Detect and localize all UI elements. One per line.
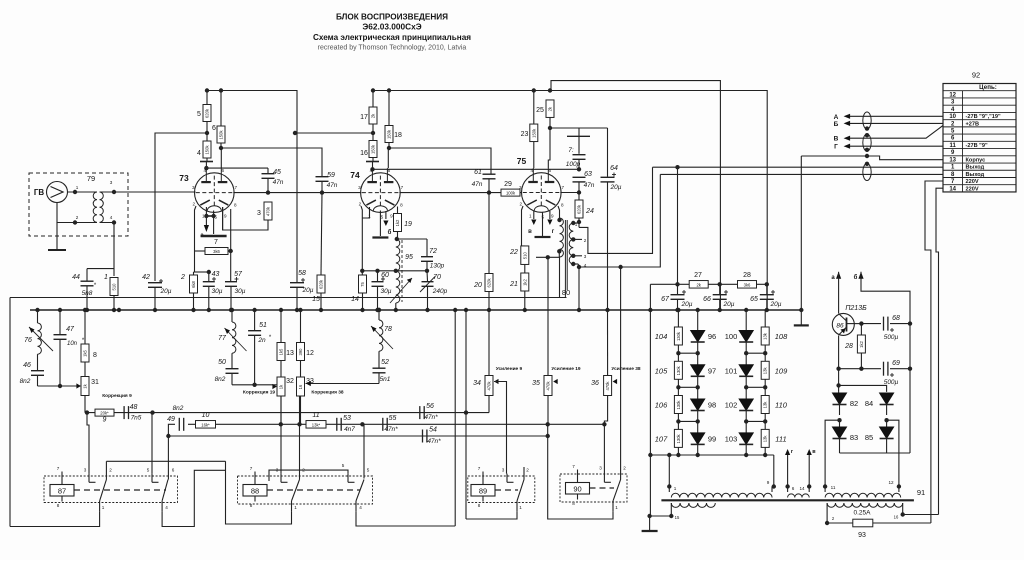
svg-text:79: 79 bbox=[87, 174, 95, 183]
wire: R25 bottom to C64 top bbox=[550, 127, 608, 129]
resistor R108 13k bbox=[764, 319, 766, 327]
svg-text:150k: 150k bbox=[531, 128, 536, 138]
wire: line G to pin11 bbox=[850, 145, 943, 147]
svg-text:16: 16 bbox=[360, 150, 368, 157]
svg-text:6: 6 bbox=[222, 168, 225, 173]
T80 right winding pins 1-4 bbox=[573, 222, 579, 224]
svg-text:Схема электрическая принципиал: Схема электрическая принципиальная bbox=[313, 33, 471, 42]
resistor R4 150k bbox=[203, 141, 211, 158]
wire: R6 bottom to V73 right anode bbox=[220, 148, 222, 168]
tube V75 internals bbox=[523, 168, 560, 211]
svg-text:1k2: 1k2 bbox=[522, 278, 527, 285]
wire: R34 wiper to relay89 pin3 bbox=[494, 382, 507, 474]
svg-text:47n*: 47n* bbox=[384, 426, 398, 433]
capacitor C69 500u bbox=[883, 362, 885, 376]
resistor R1011 13k bbox=[764, 421, 766, 429]
wire: line A to pin10 bbox=[850, 115, 943, 117]
resistor R24 620k bbox=[578, 193, 580, 201]
svg-text:47n: 47n bbox=[327, 182, 338, 189]
capacitor C52 5n1 bbox=[378, 351, 380, 368]
capacitor C58 20u bbox=[290, 282, 304, 284]
svg-text:59: 59 bbox=[327, 172, 335, 179]
svg-text:150k: 150k bbox=[205, 145, 210, 155]
wire: vertical x455 from bus to loop L4 bbox=[454, 310, 456, 526]
wire: V73 cathode pins bbox=[205, 207, 207, 216]
svg-text:Коррекция 19: Коррекция 19 bbox=[243, 390, 275, 396]
resistor R29 100k bbox=[501, 189, 520, 196]
svg-text:9: 9 bbox=[224, 214, 227, 219]
diode D102 bbox=[745, 388, 747, 400]
wire: D84/85 junction to T91 pin12 bbox=[887, 420, 899, 486]
wire: T80 pin6 tie line bbox=[536, 251, 559, 257]
svg-text:83: 83 bbox=[850, 433, 858, 442]
svg-text:10: 10 bbox=[202, 412, 210, 419]
svg-text:3: 3 bbox=[502, 468, 505, 473]
wire: loop L4 (88B pin4 to x455) bbox=[356, 512, 455, 526]
svg-text:1: 1 bbox=[519, 505, 522, 510]
wire: V73 pin5/9 to ground bbox=[213, 216, 215, 234]
svg-text:3: 3 bbox=[257, 210, 261, 217]
svg-text:85: 85 bbox=[865, 433, 873, 442]
svg-text:35: 35 bbox=[532, 380, 540, 387]
wire: grid line V74-V75 bbox=[399, 192, 521, 194]
relay K88 dashed link bbox=[267, 489, 360, 491]
capacitor C71 100p bbox=[578, 128, 580, 136]
svg-text:88: 88 bbox=[251, 487, 259, 496]
svg-text:101: 101 bbox=[725, 366, 738, 375]
resistor R9 20k bbox=[95, 409, 114, 416]
resistor R28 3k6 bbox=[738, 281, 757, 289]
wire: V74 pin1 lead bbox=[362, 207, 369, 218]
connector XS92 table bbox=[943, 84, 1016, 192]
svg-text:7: 7 bbox=[235, 185, 238, 190]
svg-text:7: 7 bbox=[401, 185, 404, 190]
relay K90 dashed link bbox=[590, 487, 615, 489]
capacitor C67 20u bbox=[677, 284, 679, 294]
resistor R13 1k5 bbox=[280, 310, 282, 343]
svg-text:8: 8 bbox=[572, 501, 575, 506]
svg-text:24: 24 bbox=[585, 208, 594, 215]
wire: node above C44/R1 bbox=[87, 268, 114, 270]
svg-text:99: 99 bbox=[708, 434, 716, 443]
svg-text:1: 1 bbox=[674, 486, 677, 491]
svg-text:47: 47 bbox=[66, 326, 75, 333]
wire: row C bbox=[168, 435, 547, 437]
svg-text:1: 1 bbox=[294, 505, 297, 510]
svg-text:16: 16 bbox=[894, 515, 899, 520]
wire: V73 pin9 lead bbox=[222, 207, 224, 230]
svg-text:13: 13 bbox=[286, 350, 294, 357]
svg-text:БЛОК ВОСПРОИЗВЕДЕНИЯ: БЛОК ВОСПРОИЗВЕДЕНИЯ bbox=[336, 13, 448, 22]
diode D103 bbox=[745, 421, 747, 433]
svg-text:Б: Б bbox=[834, 121, 839, 128]
wire: V75 pin2 lead to R22 bbox=[522, 206, 524, 246]
resistor R26 1k2 bbox=[860, 324, 862, 335]
capacitor C57 30u bbox=[225, 281, 237, 283]
svg-text:Выход: Выход bbox=[966, 172, 985, 178]
svg-text:10: 10 bbox=[949, 114, 956, 120]
svg-text:16k*: 16k* bbox=[201, 422, 210, 427]
wire: R18 bottom to C61 bbox=[389, 143, 491, 174]
wire: fuse to 220V column bbox=[873, 522, 931, 524]
resistor R105 130k bbox=[677, 353, 679, 361]
svg-text:30µ: 30µ bbox=[381, 288, 392, 295]
wire: VT86 base row bbox=[847, 323, 862, 325]
wire: row B bbox=[188, 423, 604, 425]
svg-text:500µ: 500µ bbox=[884, 334, 899, 341]
svg-text:8n2: 8n2 bbox=[173, 405, 184, 412]
diode D99 bbox=[697, 421, 699, 433]
svg-text:3: 3 bbox=[110, 180, 113, 185]
wire: grid line V73-V74 bbox=[233, 192, 361, 194]
inductor L78 with arrow bbox=[378, 310, 380, 320]
svg-text:510: 510 bbox=[522, 252, 527, 260]
resistor R32 1k (with arrow) bbox=[277, 377, 285, 396]
svg-text:470k: 470k bbox=[605, 381, 610, 391]
wire: matrix bottom rail bbox=[650, 454, 773, 456]
resistor R8 1k5 bbox=[84, 310, 86, 344]
svg-text:2: 2 bbox=[359, 202, 362, 207]
wire: output line (Vyhod 8) bbox=[660, 173, 943, 175]
svg-text:5: 5 bbox=[342, 463, 345, 468]
svg-text:16: 16 bbox=[298, 384, 303, 389]
svg-text:130p: 130p bbox=[430, 263, 445, 270]
resistor R1010 13k bbox=[764, 388, 766, 396]
transformer T79 secondary winding bbox=[100, 192, 104, 222]
svg-text:5n1: 5n1 bbox=[380, 376, 391, 383]
svg-text:130k: 130k bbox=[676, 433, 681, 443]
svg-text:47n: 47n bbox=[472, 181, 483, 188]
wire: line V to pin2 diagonal bbox=[850, 126, 943, 139]
L95 tuning arrow bbox=[390, 278, 412, 303]
capacitor C56 47n (row A) bbox=[419, 406, 421, 419]
svg-text:27: 27 bbox=[694, 272, 702, 279]
svg-text:15: 15 bbox=[312, 296, 320, 303]
svg-text:4: 4 bbox=[204, 168, 207, 173]
net arrow g (winding W2) bbox=[787, 455, 789, 487]
svg-text:14: 14 bbox=[351, 296, 359, 303]
resistor R15 620k bbox=[321, 193, 322, 275]
diode D85 bbox=[886, 420, 888, 427]
resistor R106 130k bbox=[677, 388, 679, 396]
wire: rectifier bottom rail bbox=[840, 452, 911, 454]
svg-text:Выход: Выход bbox=[966, 165, 985, 171]
svg-text:18: 18 bbox=[394, 132, 402, 139]
resistor R16 150k bbox=[369, 141, 377, 158]
capacitor C43 30u bbox=[208, 272, 210, 281]
svg-text:6k8: 6k8 bbox=[191, 280, 196, 287]
junction dots on B+ rails bbox=[205, 88, 209, 92]
svg-text:28: 28 bbox=[743, 272, 751, 279]
capacitor C63 47n bbox=[573, 176, 586, 178]
svg-text:7: 7 bbox=[478, 466, 481, 471]
svg-text:ГВ: ГВ bbox=[34, 188, 45, 197]
svg-text:9: 9 bbox=[551, 214, 554, 219]
svg-text:47n: 47n bbox=[584, 182, 595, 189]
svg-text:72: 72 bbox=[429, 248, 437, 255]
transformer T80 core bbox=[564, 220, 566, 298]
ground at head bbox=[56, 223, 58, 251]
svg-text:б: б bbox=[854, 274, 858, 281]
svg-text:470k: 470k bbox=[487, 381, 492, 391]
tube V73 internals bbox=[196, 168, 233, 211]
svg-text:8: 8 bbox=[561, 203, 564, 208]
svg-text:2: 2 bbox=[623, 466, 626, 471]
net arrow v (V75 cathode) bbox=[533, 211, 535, 219]
svg-text:32: 32 bbox=[286, 378, 294, 385]
svg-text:12: 12 bbox=[306, 350, 314, 357]
svg-text:95: 95 bbox=[405, 254, 413, 261]
svg-text:93: 93 bbox=[858, 532, 866, 539]
svg-text:8: 8 bbox=[250, 503, 253, 508]
relay K89 dashed enclosure bbox=[468, 476, 535, 503]
svg-text:11: 11 bbox=[312, 412, 319, 419]
svg-text:Усиление 19: Усиление 19 bbox=[551, 366, 580, 372]
svg-text:20: 20 bbox=[473, 282, 482, 289]
svg-text:Коррекция 9: Коррекция 9 bbox=[102, 393, 132, 399]
relay K87 coil box bbox=[50, 485, 74, 497]
svg-text:96: 96 bbox=[708, 332, 716, 341]
diode D82 bbox=[833, 393, 847, 404]
wire: matrix bottom to T91 pin9 bbox=[773, 455, 775, 487]
svg-text:130k: 130k bbox=[676, 400, 681, 410]
diode D97 bbox=[697, 353, 699, 365]
wire: relay90 pin2 feed to output line bbox=[620, 267, 622, 480]
resistor R27 2k bbox=[689, 281, 708, 289]
svg-text:5: 5 bbox=[381, 215, 384, 220]
wire: R31 chain to relay87 pin3 bbox=[87, 413, 89, 474]
svg-text:7: 7 bbox=[250, 466, 253, 471]
resistor R35 470k chain bbox=[547, 257, 549, 375]
wire: R32 to relay88 pin3 bbox=[280, 396, 282, 474]
svg-text:2: 2 bbox=[520, 202, 523, 207]
svg-text:6: 6 bbox=[212, 125, 216, 132]
svg-text:13k: 13k bbox=[763, 332, 768, 340]
capacitor C50 8n2 bbox=[231, 353, 233, 368]
svg-text:49: 49 bbox=[167, 416, 175, 423]
wire: rows junction at x547.7 bbox=[547, 424, 549, 436]
wire: vertical x466 from bus to loop L5 bbox=[465, 310, 467, 519]
wire: R33 to relay88 pin2 bbox=[299, 396, 301, 480]
svg-text:67: 67 bbox=[661, 296, 670, 303]
svg-text:102: 102 bbox=[725, 401, 738, 410]
wire: 220V feed row7 bbox=[925, 181, 943, 523]
wire: left border bbox=[9, 298, 11, 527]
wire: R18 bottom to V74 right anode bbox=[387, 148, 389, 168]
capacitor C72 130p bbox=[426, 239, 428, 257]
transformer T91 winding W3 bbox=[825, 493, 901, 497]
transformer T91 core bbox=[661, 499, 914, 501]
inductor L77 with arrow bbox=[231, 310, 233, 322]
wire: anode V74 to C63/C71 junction bbox=[373, 168, 580, 170]
svg-text:3: 3 bbox=[599, 466, 602, 471]
svg-text:150k: 150k bbox=[371, 144, 376, 154]
resistor R3 470k bbox=[264, 202, 272, 220]
row B dots bbox=[279, 422, 283, 426]
net arrow a (supply) bbox=[836, 272, 841, 279]
svg-text:6: 6 bbox=[549, 168, 552, 173]
wire: row A bbox=[87, 412, 489, 414]
svg-text:2n: 2n bbox=[257, 337, 266, 344]
dashed enclosure (playback head unit) bbox=[29, 173, 128, 236]
svg-text:92: 92 bbox=[972, 71, 980, 80]
wire: V74 pin2 lead down bbox=[361, 206, 362, 271]
svg-text:1k5: 1k5 bbox=[279, 348, 284, 355]
svg-text:1: 1 bbox=[104, 274, 108, 281]
svg-text:8n2: 8n2 bbox=[20, 378, 31, 385]
wire: R7 node down to C57 bbox=[230, 240, 232, 281]
diode D100 bbox=[745, 321, 747, 331]
wire: R3 bottom loop bbox=[223, 207, 268, 230]
capacitor C59 47n bbox=[316, 176, 329, 178]
svg-text:150k: 150k bbox=[219, 130, 224, 140]
wire: T80 pin4 to output line (to pin8 of 92) bbox=[578, 174, 660, 267]
svg-text:6: 6 bbox=[172, 468, 175, 473]
wire: head to transformer primary bbox=[68, 191, 98, 193]
wire: loop L6 (90 pin1 to x547.7) bbox=[548, 436, 613, 519]
svg-text:50: 50 bbox=[218, 359, 226, 366]
svg-text:42: 42 bbox=[142, 274, 150, 281]
svg-text:75: 75 bbox=[517, 156, 527, 166]
ground bus (main horizontal) bbox=[30, 309, 801, 311]
wire: 87B pin6 from row C bbox=[167, 436, 169, 480]
svg-text:73: 73 bbox=[179, 173, 189, 183]
wire: C46 to R31 arrow bbox=[38, 385, 79, 387]
svg-text:8: 8 bbox=[93, 352, 97, 359]
svg-text:80: 80 bbox=[562, 288, 570, 297]
tube V75 envelope bbox=[522, 173, 562, 213]
svg-text:5: 5 bbox=[197, 111, 201, 118]
svg-text:4: 4 bbox=[197, 150, 201, 157]
inductor L95 bbox=[396, 238, 397, 240]
resistor R23 150k bbox=[533, 91, 535, 124]
wire: R6 bottom to C59 bbox=[221, 143, 322, 176]
wire: D82/83 junction to T91 pin11 bbox=[825, 420, 839, 486]
svg-text:68: 68 bbox=[892, 315, 900, 322]
wire: loop L1 (87A pin1 to left border) bbox=[10, 512, 100, 527]
wire: emitter column bbox=[838, 335, 840, 392]
svg-text:111: 111 bbox=[775, 434, 786, 443]
svg-text:15: 15 bbox=[675, 515, 680, 520]
wire: R16 bottom to anode V74 bbox=[372, 158, 374, 162]
capacitor C44 5n8 bbox=[81, 280, 94, 282]
svg-text:620k: 620k bbox=[577, 204, 582, 214]
transformer T91 winding W1 bbox=[668, 487, 670, 493]
playback head GV symbol bbox=[47, 182, 68, 203]
capacitor C46 8n2 bbox=[37, 354, 39, 371]
svg-text:55: 55 bbox=[389, 415, 397, 422]
svg-text:20µ: 20µ bbox=[681, 301, 693, 308]
T80 left winding taps bbox=[557, 249, 561, 253]
capacitor C51 2n bbox=[254, 310, 256, 331]
resistor R7 3k6 bbox=[205, 248, 228, 255]
svg-text:recreated by Thomson Technolog: recreated by Thomson Technology, 2010, L… bbox=[318, 45, 467, 52]
svg-text:9: 9 bbox=[767, 480, 770, 485]
ground at V75 cathode bbox=[542, 212, 544, 236]
wire: W5 to fuse bbox=[827, 508, 853, 523]
twisted pair symbol 1 bbox=[863, 112, 871, 129]
tube V74 envelope bbox=[361, 173, 401, 213]
capacitor C53 4n7 bbox=[336, 418, 338, 431]
svg-text:100k: 100k bbox=[506, 191, 516, 196]
wire: line B to pin2 bbox=[850, 122, 943, 124]
svg-text:Усиление 9: Усиление 9 bbox=[496, 366, 523, 372]
resistor R19 1k2 bbox=[397, 207, 399, 214]
svg-text:В: В bbox=[834, 136, 839, 143]
svg-text:Коррекция 38: Коррекция 38 bbox=[311, 390, 343, 396]
svg-text:66: 66 bbox=[703, 296, 711, 303]
wire: R33 to C52 with arrow bbox=[306, 383, 380, 385]
svg-text:63: 63 bbox=[584, 171, 592, 178]
relay K89 coil box bbox=[471, 485, 495, 497]
svg-text:4: 4 bbox=[531, 168, 534, 173]
svg-text:1: 1 bbox=[615, 505, 618, 510]
svg-text:в: в bbox=[528, 229, 532, 235]
svg-text:14: 14 bbox=[949, 186, 956, 192]
relay K89 contact bbox=[506, 474, 508, 483]
wire: b-net to right column bbox=[861, 272, 910, 453]
variable capacitor C70 240p bbox=[426, 271, 429, 281]
svg-text:12: 12 bbox=[949, 92, 956, 98]
wire: V75 grid to C63 node bbox=[560, 192, 579, 194]
svg-text:34: 34 bbox=[473, 380, 481, 387]
svg-text:43: 43 bbox=[212, 271, 220, 278]
wire: loop L2 (87B pin4 to bridge) bbox=[162, 470, 225, 526]
resistor R21 1k2 bbox=[521, 273, 529, 291]
svg-text:3k6: 3k6 bbox=[744, 282, 751, 287]
wire: anode V73 to C45 bbox=[206, 167, 268, 169]
svg-text:75: 75 bbox=[360, 282, 365, 287]
wire: R5/R4 junction to left dropper bbox=[155, 133, 207, 281]
T80 left winding bottom bbox=[559, 257, 561, 297]
svg-text:5: 5 bbox=[147, 468, 150, 473]
wire: cathode node line y270.8 bbox=[362, 270, 427, 272]
svg-text:6: 6 bbox=[388, 168, 391, 173]
svg-text:89: 89 bbox=[479, 487, 487, 496]
svg-text:7:: 7: bbox=[568, 147, 574, 154]
resistor R22 510 bbox=[521, 246, 529, 265]
svg-text:7: 7 bbox=[572, 464, 575, 469]
resistor R11 13k bbox=[306, 421, 326, 429]
relay K90 dashed enclosure bbox=[560, 474, 627, 502]
capacitor C60 30u bbox=[377, 271, 379, 281]
svg-text:30µ: 30µ bbox=[212, 288, 223, 295]
svg-text:65: 65 bbox=[750, 296, 758, 303]
transformer T79 primary winding bbox=[93, 192, 97, 222]
svg-text:110: 110 bbox=[775, 401, 788, 410]
svg-text:29: 29 bbox=[504, 181, 512, 188]
relay K87 contact B bbox=[151, 474, 153, 483]
capacitor C54 47n (row C) bbox=[422, 430, 424, 443]
svg-text:4: 4 bbox=[165, 505, 168, 510]
relay K88 coil box bbox=[243, 485, 267, 497]
transistor VT86 P213B bbox=[832, 313, 854, 335]
svg-text:А: А bbox=[834, 114, 839, 121]
wire: row A to relay87 pin5 bbox=[151, 413, 153, 474]
svg-text:91: 91 bbox=[917, 488, 925, 497]
svg-text:84: 84 bbox=[865, 399, 873, 408]
svg-text:130k: 130k bbox=[676, 331, 681, 341]
svg-text:2: 2 bbox=[109, 468, 112, 473]
svg-text:47n: 47n bbox=[273, 179, 284, 186]
wire: chassis (Korpus) line from ground to connector bbox=[801, 156, 943, 160]
svg-text:13k*: 13k* bbox=[312, 422, 321, 427]
inductor L76 with arrow bbox=[37, 310, 39, 323]
svg-text:7: 7 bbox=[562, 185, 565, 190]
net arrow b (supply) bbox=[858, 272, 863, 279]
svg-text:2: 2 bbox=[584, 238, 587, 243]
svg-text:4: 4 bbox=[359, 505, 362, 510]
